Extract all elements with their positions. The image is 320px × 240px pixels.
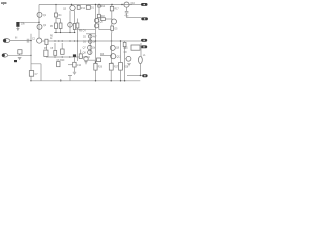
- svg-text:R17: R17: [115, 9, 120, 11]
- svg-text:R14: R14: [101, 6, 106, 8]
- svg-text:R12: R12: [81, 8, 86, 10]
- svg-text:R26: R26: [98, 67, 103, 69]
- svg-text:R27: R27: [114, 67, 119, 69]
- svg-text:upc: upc: [1, 1, 7, 5]
- svg-text:C10: C10: [77, 65, 82, 67]
- svg-text:R9 C4: R9 C4: [79, 31, 86, 33]
- svg-text:IN: IN: [15, 38, 18, 40]
- svg-text:R23: R23: [100, 54, 105, 56]
- svg-text:R18: R18: [101, 16, 106, 18]
